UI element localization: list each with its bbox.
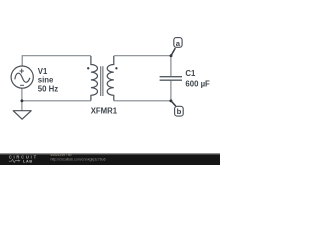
wire: secondary top bbox=[114, 55, 171, 57]
capacitor C1 bbox=[160, 77, 182, 81]
junction: node b bbox=[169, 99, 172, 102]
svg-text:a: a bbox=[176, 39, 181, 48]
svg-text:V1: V1 bbox=[38, 67, 48, 76]
label C1 name and value bbox=[185, 69, 210, 89]
wire: primary bottom lead from source bbox=[21, 88, 23, 101]
svg-text:C1: C1 bbox=[185, 69, 196, 78]
ground bbox=[13, 111, 31, 120]
transformer secondary dot bbox=[115, 67, 117, 69]
footer bar bbox=[0, 153, 220, 165]
svg-text:s4321249 / 9b: s4321249 / 9b bbox=[51, 153, 72, 157]
svg-text:600 µF: 600 µF bbox=[185, 79, 210, 88]
transformer core bbox=[101, 66, 103, 96]
wire: capacitor top lead bbox=[170, 56, 172, 77]
svg-text:50 Hz: 50 Hz bbox=[38, 84, 58, 93]
node a flag bbox=[171, 38, 182, 56]
svg-text:b: b bbox=[177, 107, 182, 116]
voltage source V1 bbox=[11, 66, 33, 88]
svg-text:LAB: LAB bbox=[23, 159, 33, 163]
footer logo waveform bbox=[9, 159, 20, 162]
transformer XFMR1 secondary winding bbox=[107, 56, 114, 101]
svg-text:XFMR1: XFMR1 bbox=[91, 106, 118, 115]
transformer primary dot bbox=[87, 67, 89, 69]
junction: node a bbox=[170, 54, 173, 57]
wire: primary bottom horizontal bbox=[22, 100, 91, 102]
node b flag bbox=[171, 101, 183, 116]
transformer XFMR1 primary winding bbox=[91, 56, 98, 101]
label V1 name and value bbox=[38, 67, 58, 94]
wire: primary top bbox=[22, 56, 91, 66]
svg-text:sine: sine bbox=[38, 76, 54, 85]
wire: capacitor bottom lead bbox=[170, 80, 172, 101]
wire: ground stub bbox=[21, 101, 23, 111]
junction: source/ground node bbox=[20, 99, 23, 102]
wire: secondary bottom horizontal bbox=[114, 100, 171, 102]
svg-text:http://circuitlab.com/c/xxkgkj: http://circuitlab.com/c/xxkgkj3c76u6 bbox=[51, 158, 106, 162]
